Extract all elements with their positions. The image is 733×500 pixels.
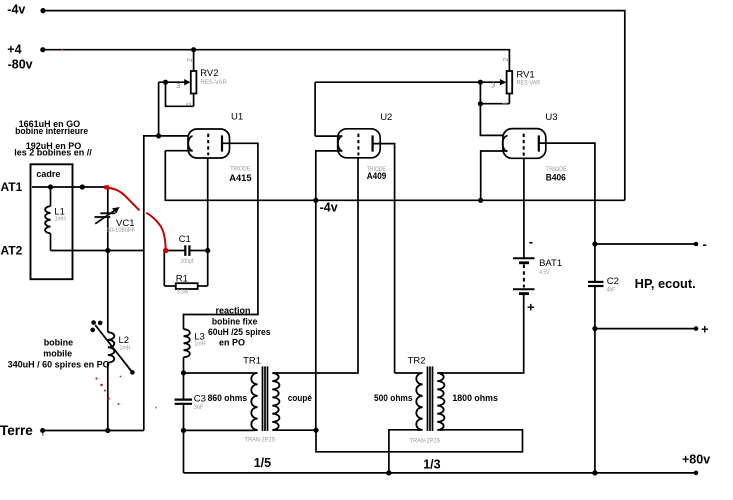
svg-text:AT1: AT1 — [1, 180, 23, 194]
svg-text:-80v: -80v — [8, 58, 33, 72]
svg-text:500 ohms: 500 ohms — [374, 393, 413, 403]
wire TR2 secondary top to battery plus — [437, 295, 523, 374]
wire L3 junction down to C3 — [183, 373, 185, 399]
wire U2 plate to TR2 primary — [373, 144, 395, 373]
svg-text:+: + — [527, 300, 535, 315]
node junction TR2 primary bottom on bus — [386, 470, 391, 475]
svg-text:A415: A415 — [229, 173, 251, 183]
svg-text:les 2 bobines en //: les 2 bobines en // — [14, 147, 92, 157]
svg-text:-: - — [529, 234, 533, 249]
svg-text:860 ohms: 860 ohms — [208, 393, 248, 403]
capacitor C2 — [588, 244, 604, 329]
wire U3 plate to output — [539, 143, 595, 244]
svg-text:+: + — [701, 321, 709, 336]
transformer TR1 — [251, 366, 279, 431]
wire +4/-80v rail — [43, 50, 510, 71]
resistor RV1 — [480, 71, 512, 104]
svg-text:A409: A409 — [367, 171, 387, 181]
wire C1 left to R1 left — [163, 251, 165, 287]
svg-text:BAT1: BAT1 — [539, 258, 562, 269]
wire U1 grid down to C1 — [207, 158, 209, 251]
op-amp U1 triode tube body — [188, 129, 230, 158]
svg-text:U2: U2 — [380, 112, 392, 123]
wire TR2 primary bottom to bus — [389, 430, 417, 473]
wire C2 down to bus — [594, 329, 596, 473]
wire Terre line — [42, 430, 144, 432]
op-amp U2 triode tube body — [338, 129, 381, 158]
svg-text:coupé: coupé — [288, 393, 312, 403]
wire U1 plate to reaction coil — [184, 143, 258, 329]
node junction AT1 mid — [80, 184, 85, 189]
svg-text:1: 1 — [502, 102, 509, 106]
svg-text:bobine: bobine — [44, 338, 73, 348]
wire RV1 wiper long line — [315, 81, 501, 83]
wire AT2 line — [51, 250, 144, 252]
red artifacts below Terre — [42, 50, 157, 437]
svg-text:4nF: 4nF — [607, 286, 616, 293]
node junction -4v / U2 filament — [313, 198, 318, 203]
svg-text:+4: +4 — [7, 42, 21, 56]
svg-text:reaction: reaction — [216, 306, 251, 316]
wire U1 filament bottom to -4v — [165, 150, 192, 152]
wire VC1 bottom down through L2 to Terre — [107, 251, 109, 333]
svg-text:B406: B406 — [546, 172, 566, 182]
node -4v rail left terminal — [40, 8, 45, 13]
svg-text:1/5: 1/5 — [254, 456, 271, 470]
svg-text:C2: C2 — [607, 276, 619, 287]
capacitor C1 — [164, 245, 207, 256]
node junction RV2 top on +4 rail — [191, 47, 196, 52]
svg-text:TR2: TR2 — [408, 356, 426, 367]
svg-text:bobine interrieure: bobine interrieure — [15, 126, 88, 136]
inductor L3 — [184, 329, 190, 373]
svg-text:200pf: 200pf — [181, 258, 194, 265]
svg-text:1: 1 — [186, 102, 193, 106]
svg-text:1mH: 1mH — [194, 341, 205, 348]
svg-text:2: 2 — [503, 58, 510, 62]
svg-text:3: 3 — [176, 83, 180, 90]
svg-text:50-1080PF: 50-1080PF — [107, 227, 136, 234]
capacitor VC1 variable — [95, 189, 120, 251]
wire TR1 secondary top to U2 grid — [276, 158, 358, 373]
svg-text:mobile: mobile — [43, 349, 72, 359]
node terminal plus — [694, 326, 699, 331]
node junction output minus — [592, 241, 597, 246]
svg-text:R1: R1 — [176, 273, 188, 284]
wire -4v bottom line — [165, 151, 625, 201]
node terminal minus — [694, 242, 699, 247]
svg-text:-4v: -4v — [320, 200, 338, 214]
inductor L2 — [90, 320, 134, 430]
svg-text:TR1: TR1 — [243, 355, 261, 366]
wire output plus line — [595, 328, 696, 330]
transformer TR2 — [416, 366, 444, 431]
wire bottom +80v bus — [184, 472, 697, 474]
svg-text:en PO: en PO — [219, 338, 245, 348]
svg-text:3nF: 3nF — [194, 404, 204, 411]
svg-text:RES-VAR: RES-VAR — [200, 79, 227, 86]
node junction output plus — [592, 326, 597, 331]
svg-text:1mH: 1mH — [55, 215, 66, 222]
battery BAT1 — [513, 258, 535, 296]
svg-text:340uH / 60 spires en PO: 340uH / 60 spires en PO — [8, 359, 110, 369]
svg-text:AT2: AT2 — [1, 244, 23, 258]
svg-text:HP, ecout.: HP, ecout. — [635, 277, 696, 291]
wire U3 filament top riser — [479, 82, 481, 104]
node junction RV1 pin1 — [478, 101, 483, 106]
svg-text:TRAN-2P2S: TRAN-2P2S — [245, 437, 276, 444]
resistor R1 — [164, 283, 207, 289]
node junction C2 on bus — [592, 470, 597, 475]
node +4 rail left terminal — [40, 47, 45, 52]
wire TR1 primary top lead — [184, 372, 253, 374]
wire U2 filament top lead — [315, 135, 342, 137]
svg-text:1/3: 1/3 — [423, 458, 440, 472]
svg-text:C1: C1 — [179, 234, 191, 245]
svg-text:3,3M: 3,3M — [177, 289, 189, 296]
node junction -4v / U3 filament — [478, 198, 483, 203]
svg-text:4.5V: 4.5V — [539, 269, 550, 276]
wire TR2 primary top lead — [395, 372, 417, 374]
wire -4v to TR1 secondary bottom (U2 filament lower) — [315, 200, 317, 430]
svg-text:RV2: RV2 — [200, 68, 218, 79]
wire U3 filament top lead — [480, 104, 503, 136]
node junction RV1 wiper — [478, 80, 483, 85]
wire output minus line — [595, 243, 696, 245]
node Terre terminal — [40, 428, 45, 433]
svg-text:TRIODE: TRIODE — [230, 166, 250, 173]
wire C3 junction down to bottom bus — [183, 430, 185, 473]
svg-text:U1: U1 — [231, 112, 243, 123]
wire U3 filament bottom lead — [481, 151, 508, 200]
wire C1 right to R1 right — [207, 251, 209, 287]
cadre box — [31, 164, 73, 279]
svg-text:+80v: +80v — [682, 453, 710, 467]
node junction L3 bottom / TR1 primary top — [181, 370, 186, 375]
svg-text:TRAN-2P2S: TRAN-2P2S — [410, 437, 441, 444]
node junction L1 top — [48, 184, 53, 189]
wire -4v top rail — [43, 11, 625, 201]
svg-text:3: 3 — [491, 83, 495, 90]
svg-text:U3: U3 — [545, 112, 557, 123]
node junction VC1 bottom — [105, 248, 110, 253]
wire RV2 wiper to U1 filament top — [159, 82, 188, 136]
wire U2 filament bottom lead — [316, 151, 343, 200]
op-amp U3 triode tube body — [503, 129, 546, 159]
wire TR1 secondary bottom lead — [276, 429, 316, 431]
wire TR1 sec bottom zigzag to TR2 sec bottom — [316, 430, 523, 452]
node junction TR1 secondary bottom — [313, 428, 318, 433]
wire U2 filament top riser — [314, 82, 316, 136]
wire U1 junction to Terre vertical — [144, 136, 159, 431]
resistor RV2 — [159, 50, 197, 107]
wire U3 grid to battery — [523, 158, 525, 257]
node junction C3 bottom / Terre / TR1 primary bottom — [181, 428, 186, 433]
svg-text:1800 ohms: 1800 ohms — [452, 393, 498, 403]
capacitor C3 — [175, 400, 192, 431]
inductor L1 — [45, 187, 50, 251]
svg-text:cadre: cadre — [36, 169, 60, 179]
node red dot C1 left — [163, 248, 168, 253]
node junction U1 filament top — [156, 133, 161, 138]
svg-text:2: 2 — [187, 58, 194, 62]
svg-text:1mH: 1mH — [120, 344, 131, 351]
svg-text:60uH /25 spires: 60uH /25 spires — [208, 327, 271, 337]
svg-text:RES-VAR: RES-VAR — [517, 79, 541, 86]
node junction C1/R1 right / U1 grid — [205, 248, 210, 253]
node red square AT1 — [104, 185, 109, 189]
svg-text:-: - — [703, 236, 707, 251]
wire AT1 line — [32, 186, 105, 188]
wire TR1 primary bottom lead — [184, 429, 253, 431]
svg-text:bobine fixe: bobine fixe — [212, 316, 258, 326]
svg-text:Terre: Terre — [0, 423, 33, 438]
node junction L2 bottom on Terre — [105, 428, 110, 433]
node terminal +80v — [694, 471, 699, 476]
wire red link AT1 to C1 — [107, 188, 166, 248]
svg-text:-4v: -4v — [7, 2, 25, 16]
